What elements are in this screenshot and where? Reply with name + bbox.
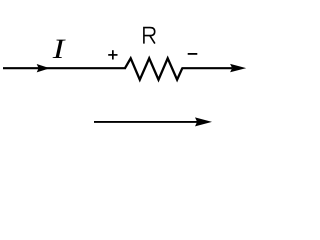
voltage drop arrow below resistor xyxy=(94,121,198,123)
current arrowhead xyxy=(37,64,50,72)
node - (polarity minus) xyxy=(188,53,198,55)
node + (polarity plus) xyxy=(108,50,117,59)
wire right segment xyxy=(182,67,233,69)
wire left segment with current direction xyxy=(3,67,126,69)
voltage arrow arrowhead xyxy=(195,117,212,126)
svg-text:I: I xyxy=(51,34,66,65)
right wire arrowhead xyxy=(230,64,246,72)
resistor R zigzag xyxy=(125,58,182,79)
label R (resistor designator) xyxy=(144,28,155,44)
